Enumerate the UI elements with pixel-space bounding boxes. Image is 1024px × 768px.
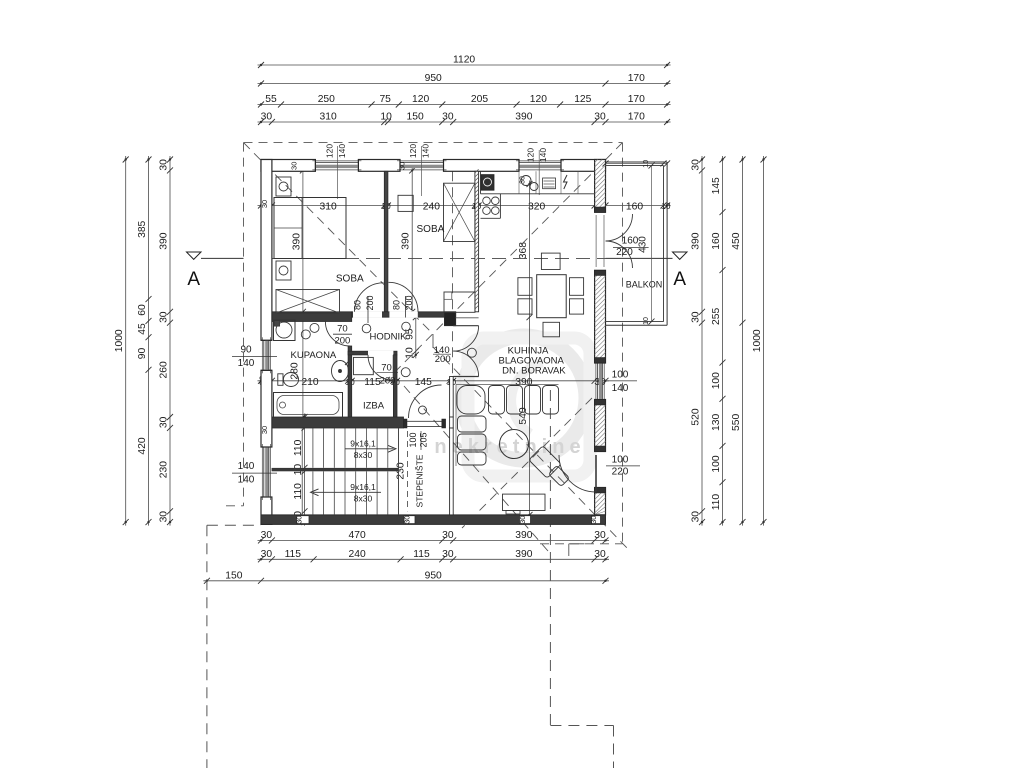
svg-text:90: 90 — [240, 345, 252, 356]
chair right 1 — [570, 278, 584, 296]
svg-text:115: 115 — [413, 549, 430, 560]
label KUHINJA — [508, 346, 549, 357]
svg-text:140: 140 — [538, 148, 548, 162]
svg-text:75: 75 — [379, 94, 391, 105]
svg-text:950: 950 — [425, 570, 442, 581]
svg-text:310: 310 — [320, 201, 337, 212]
svg-text:30: 30 — [691, 311, 702, 323]
svg-text:390: 390 — [515, 549, 532, 560]
dim row 1120 — [258, 55, 671, 69]
svg-text:1120: 1120 — [453, 55, 475, 66]
section marker A right — [673, 252, 688, 290]
svg-text:30: 30 — [589, 516, 598, 524]
svg-text:145: 145 — [711, 177, 722, 194]
label BALKON — [626, 280, 663, 290]
svg-text:SOBA: SOBA — [417, 224, 445, 235]
dim 30-110-10-110-30 stairs — [293, 414, 308, 526]
wall izba top — [348, 351, 397, 356]
wall top segment 2 — [358, 160, 400, 172]
dim row 150-950 — [203, 570, 609, 584]
dim 230 stairs — [396, 431, 408, 511]
svg-text:230: 230 — [159, 461, 170, 478]
svg-text:160: 160 — [626, 201, 643, 212]
svg-text:70: 70 — [381, 363, 392, 374]
svg-text:30: 30 — [260, 426, 269, 434]
kitchen counter top — [481, 171, 595, 194]
wall top segment 4 — [561, 160, 606, 172]
armchair — [529, 446, 570, 487]
partition soba1-soba2 — [384, 171, 388, 311]
svg-text:9x16,1: 9x16,1 — [350, 482, 376, 492]
label 120/140 window W3 — [526, 148, 549, 162]
svg-text:140: 140 — [238, 475, 255, 486]
svg-text:240: 240 — [423, 201, 440, 212]
section trace vertical x452 — [452, 171, 454, 515]
roof diagonal TL — [244, 143, 434, 334]
roof diagonal aux1 — [404, 386, 548, 551]
roof outline bottom — [540, 543, 623, 545]
svg-text:240: 240 — [349, 549, 366, 560]
roof outline right — [622, 143, 624, 544]
svg-text:HODNIK: HODNIK — [370, 332, 408, 343]
dim 160-10 balcony top — [603, 160, 671, 166]
svg-text:30: 30 — [159, 311, 170, 323]
svg-text:390: 390 — [515, 530, 532, 541]
wall top segment 3 — [444, 160, 520, 172]
wall right segment 2 — [595, 270, 606, 363]
label 70/200 door kupaona — [333, 324, 352, 347]
svg-text:420: 420 — [137, 437, 148, 454]
dim chain 450-550 — [731, 156, 746, 526]
bathtub — [274, 393, 343, 418]
wall left segment 2 — [261, 370, 272, 447]
svg-text:120: 120 — [408, 144, 418, 158]
svg-text:30: 30 — [159, 416, 170, 428]
label 140/200 door living — [433, 345, 451, 365]
leader window W3 — [538, 150, 540, 195]
sofa corner — [456, 385, 559, 467]
bed soba1 — [274, 198, 346, 259]
pillar hodnik-kitchen — [444, 312, 455, 326]
dim chain 30-390-30-260-30-230-30 — [159, 156, 174, 526]
dim row interior 30-310-10-240-10-320-30-160-10 — [258, 201, 671, 212]
svg-text:120: 120 — [412, 94, 429, 105]
label 30 bottom wall c — [518, 516, 527, 524]
window W6 living — [595, 360, 606, 403]
label 140/140 stairs window — [232, 461, 277, 486]
label 30 bottom wall d — [589, 516, 598, 524]
door soba2 — [389, 282, 419, 312]
svg-text:30: 30 — [260, 200, 269, 208]
label stairs flight1 — [345, 439, 376, 460]
chair left 2 — [518, 299, 532, 314]
svg-text:255: 255 — [711, 308, 722, 325]
svg-text:1000: 1000 — [752, 329, 763, 352]
kitchen fridge lightning — [564, 175, 568, 189]
svg-text:SOBA: SOBA — [336, 274, 364, 285]
svg-text:80: 80 — [353, 300, 363, 310]
label 10 balcony top — [643, 160, 650, 168]
kitchen stove — [483, 197, 499, 214]
svg-text:140: 140 — [612, 383, 629, 394]
svg-text:140: 140 — [337, 144, 347, 158]
svg-text:310: 310 — [320, 112, 337, 123]
svg-text:120: 120 — [325, 144, 335, 158]
svg-text:30: 30 — [442, 112, 454, 123]
svg-text:30: 30 — [261, 530, 273, 541]
window W5 stairs — [261, 444, 272, 500]
label BLAGOVAONA — [499, 356, 565, 367]
label 30 top wall b — [398, 162, 407, 170]
svg-text:9x16,1: 9x16,1 — [350, 439, 376, 449]
svg-text:KUPAONA: KUPAONA — [291, 350, 337, 361]
corner block stairs door — [450, 417, 454, 428]
label stairs flight2 — [350, 482, 376, 504]
svg-text:BALKON: BALKON — [626, 280, 663, 290]
svg-text:30: 30 — [442, 549, 454, 560]
svg-text:30: 30 — [691, 159, 702, 171]
label 30 window W3 jamb — [520, 176, 527, 184]
washbasin — [332, 361, 350, 382]
stair hall rail — [450, 428, 454, 515]
dim 95-10 hodnik — [404, 314, 419, 359]
label HODNIK — [370, 332, 408, 343]
svg-text:200: 200 — [435, 354, 451, 365]
svg-text:110: 110 — [711, 494, 722, 511]
svg-text:470: 470 — [349, 530, 366, 541]
label SOBA 2 — [417, 224, 445, 235]
door terrace — [559, 455, 596, 492]
svg-text:280: 280 — [290, 362, 301, 379]
svg-text:140: 140 — [421, 144, 431, 158]
nightstand soba1 top — [276, 177, 291, 196]
svg-text:80: 80 — [392, 300, 402, 310]
nightstand soba1 bottom — [276, 261, 291, 280]
chair left 1 — [518, 278, 532, 296]
svg-text:200: 200 — [365, 295, 375, 310]
svg-text:IZBA: IZBA — [363, 401, 385, 412]
window W1 soba1 — [312, 160, 361, 172]
property line left vertical — [206, 525, 208, 768]
section line A-A — [201, 257, 673, 259]
svg-text:160: 160 — [622, 236, 639, 247]
svg-text:220: 220 — [612, 467, 629, 478]
svg-text:10: 10 — [380, 112, 392, 123]
jamb block right wall 6 — [595, 488, 606, 494]
svg-text:115: 115 — [285, 549, 302, 560]
roof flag mark — [569, 544, 585, 556]
svg-text:390: 390 — [691, 232, 702, 249]
svg-text:385: 385 — [137, 220, 148, 237]
dim 390 soba2 — [401, 167, 416, 315]
door balcony double — [596, 214, 632, 268]
door knob circles hodnik — [301, 323, 426, 414]
svg-text:30: 30 — [159, 511, 170, 523]
section marker A left — [187, 252, 202, 290]
svg-text:390: 390 — [515, 377, 532, 388]
dim row 30-310-10-150-30-390-30-170 — [258, 112, 671, 126]
svg-text:390: 390 — [291, 233, 302, 250]
wall kupaona right — [348, 346, 352, 417]
roof diagonal aux2 — [462, 398, 592, 528]
wardrobe soba1 — [276, 290, 340, 314]
svg-text:170: 170 — [628, 112, 645, 123]
kitchen sink bowls — [521, 176, 538, 191]
svg-text:90: 90 — [137, 348, 148, 360]
svg-text:150: 150 — [225, 570, 242, 581]
svg-text:125: 125 — [574, 94, 591, 105]
chair right 2 — [570, 299, 584, 314]
label 160/220 balcony door — [613, 236, 649, 259]
label DN. BORAVAK — [502, 365, 566, 376]
wall top segment 1 — [261, 160, 315, 172]
svg-text:390: 390 — [159, 232, 170, 249]
label 100/205 door stairs — [408, 431, 429, 450]
svg-text:A: A — [673, 269, 686, 290]
svg-text:100: 100 — [612, 455, 629, 466]
window W2 soba2 — [397, 160, 447, 172]
svg-text:30: 30 — [403, 516, 412, 524]
svg-text:30: 30 — [261, 112, 273, 123]
svg-text:A: A — [187, 269, 200, 290]
wall band bedrooms-south left — [272, 312, 352, 322]
dim row 950/170 top — [258, 73, 671, 87]
jamb block right wall 2 — [595, 270, 606, 275]
jamb block right wall 4 — [595, 400, 606, 406]
utility dashed vertical x613 — [613, 726, 615, 768]
label 100/140 living window — [606, 370, 638, 395]
svg-text:10: 10 — [661, 201, 671, 211]
toilet — [278, 373, 299, 387]
svg-text:205: 205 — [471, 94, 488, 105]
roof outline left — [243, 143, 245, 506]
stairs landing line — [398, 428, 400, 515]
svg-text:100: 100 — [711, 455, 722, 472]
balcony railing — [606, 162, 668, 325]
stairs risers — [302, 428, 398, 515]
kitchen dishwasher — [543, 178, 556, 189]
dim 390 soba1 / 280 kupaona — [290, 167, 306, 420]
door stairs — [404, 385, 446, 428]
floor line open pass — [456, 317, 479, 319]
partition soba2-kitchen — [475, 169, 479, 311]
stairs divider — [272, 468, 399, 471]
wall right segment 1 — [595, 160, 606, 213]
label IZBA — [363, 401, 385, 412]
svg-text:30: 30 — [594, 530, 606, 541]
svg-text:8x30: 8x30 — [354, 450, 373, 460]
label 430 balcony — [638, 163, 655, 325]
svg-text:STEPENIŠTE: STEPENIŠTE — [415, 454, 425, 507]
leader window W1 — [337, 146, 339, 199]
roof outline top — [244, 142, 623, 144]
dim chain 1000 right — [752, 156, 767, 526]
svg-text:60: 60 — [137, 304, 148, 316]
jamb block right wall 5 — [595, 446, 606, 452]
wall stairs north — [272, 417, 404, 428]
wall band bedrooms-south right — [352, 311, 456, 318]
window W3 kitchen — [516, 160, 564, 172]
kitchen counter left — [481, 194, 501, 219]
dim chain 145-160-255-100-130-100-110 — [711, 156, 726, 526]
roof diagonal TR — [385, 143, 623, 382]
svg-text:390: 390 — [515, 112, 532, 123]
svg-text:520: 520 — [691, 408, 702, 425]
stairs arrow down — [311, 489, 382, 496]
svg-text:950: 950 — [425, 73, 442, 84]
svg-text:30: 30 — [442, 530, 454, 541]
svg-text:30: 30 — [594, 549, 606, 560]
label 120/140 window W2 — [408, 144, 431, 158]
dim row interior 30-210-10-115-10-145-10-390-30 — [258, 375, 610, 387]
svg-text:200: 200 — [334, 336, 350, 347]
tv bench — [503, 494, 546, 514]
dim chain 385-60-45-90-420 — [137, 156, 152, 526]
wall bottom — [261, 515, 606, 525]
svg-text:10: 10 — [643, 317, 650, 325]
wall izba right — [393, 355, 397, 417]
label KUPAONA — [291, 350, 337, 361]
svg-text:540: 540 — [518, 407, 529, 424]
svg-text:100: 100 — [612, 370, 629, 381]
dim 368/540 kitchen-living — [518, 181, 533, 519]
desk soba2 — [444, 292, 475, 312]
svg-text:55: 55 — [265, 94, 277, 105]
dim row 30-115-240-115-30-390-30 — [258, 549, 610, 563]
svg-text:30: 30 — [518, 516, 527, 524]
svg-text:130: 130 — [711, 414, 722, 431]
svg-text:250: 250 — [318, 94, 335, 105]
door knob circle living — [467, 348, 476, 357]
property line left horizontal — [207, 524, 261, 526]
wall right segment 4 — [595, 488, 606, 515]
svg-text:260: 260 — [159, 361, 170, 378]
wall left segment 1 — [261, 160, 272, 341]
dining table — [537, 275, 567, 318]
door soba1 — [355, 283, 384, 312]
svg-text:145: 145 — [415, 377, 432, 388]
dim chain 1000 left — [114, 156, 129, 526]
wall left segment 3 — [261, 497, 272, 524]
dim row 55-250-75-120-205-120-125-170 — [258, 94, 671, 108]
svg-text:30: 30 — [159, 159, 170, 171]
svg-text:10: 10 — [643, 160, 650, 168]
door kupaona — [325, 322, 350, 347]
svg-text:30: 30 — [398, 162, 407, 170]
dim chain 30-390-30-520-30 — [691, 156, 706, 526]
wall right segment 3 — [595, 400, 606, 452]
closet soba2 — [444, 183, 475, 241]
svg-text:30: 30 — [295, 516, 304, 524]
label 120/140 window W1 — [325, 144, 348, 158]
label STEPENISTE — [415, 454, 425, 507]
svg-text:30: 30 — [290, 162, 299, 170]
label 80/200 door soba2 — [392, 295, 415, 330]
svg-text:30: 30 — [261, 549, 273, 560]
svg-text:1000: 1000 — [114, 329, 125, 352]
chair bottom — [543, 322, 560, 337]
utility dashed vertical x550 — [549, 390, 551, 726]
label 30 bottom wall b — [403, 516, 412, 524]
coffee table round — [500, 430, 529, 459]
label 30 left wall a — [260, 200, 269, 208]
svg-text:320: 320 — [528, 201, 545, 212]
svg-text:368: 368 — [518, 242, 529, 259]
label 70/200 door izba — [377, 363, 399, 387]
svg-text:170: 170 — [628, 73, 645, 84]
washing machine — [274, 320, 296, 341]
svg-text:205: 205 — [419, 432, 429, 447]
svg-text:150: 150 — [407, 112, 424, 123]
partition corridor lower — [450, 377, 454, 418]
dim row 30-470-30-390-30 — [258, 530, 610, 544]
svg-text:140: 140 — [238, 358, 255, 369]
izba cabinet — [354, 357, 374, 374]
label 30 top wall a — [290, 162, 299, 170]
svg-text:160: 160 — [711, 232, 722, 249]
svg-text:DN. BORAVAK: DN. BORAVAK — [502, 365, 566, 376]
door izba — [368, 355, 393, 380]
roof outline left jog — [226, 505, 244, 507]
leader window W2 — [421, 146, 423, 196]
door living double — [453, 326, 478, 377]
label 80/200 door soba1 — [353, 295, 376, 332]
stairs arrow up — [345, 445, 396, 452]
svg-text:210: 210 — [301, 377, 318, 388]
label 30 bottom wall a — [295, 516, 304, 524]
label 100/220 terrace door — [606, 455, 640, 478]
svg-text:170: 170 — [628, 94, 645, 105]
utility dashed jog — [550, 725, 613, 727]
svg-text:200: 200 — [380, 376, 396, 387]
jamb block right wall 1 — [595, 207, 606, 212]
roof ridge stem — [432, 334, 434, 348]
svg-text:30: 30 — [691, 511, 702, 523]
svg-text:120: 120 — [526, 148, 536, 162]
svg-text:390: 390 — [401, 232, 412, 249]
svg-text:100: 100 — [711, 372, 722, 389]
svg-text:550: 550 — [731, 414, 742, 431]
svg-text:30: 30 — [594, 112, 606, 123]
label 10 balcony bottom — [643, 317, 650, 325]
roof diagonal BR — [433, 347, 627, 548]
svg-text:8x30: 8x30 — [354, 494, 373, 504]
svg-text:430: 430 — [638, 236, 649, 253]
svg-text:450: 450 — [731, 232, 742, 249]
svg-text:45: 45 — [137, 323, 148, 335]
wardrobe soba2 small — [398, 195, 413, 211]
svg-text:70: 70 — [337, 324, 348, 335]
kitchen sink unit — [481, 175, 494, 191]
svg-text:30: 30 — [520, 176, 527, 184]
svg-text:120: 120 — [530, 94, 547, 105]
label 30 left wall b — [260, 426, 269, 434]
svg-text:140: 140 — [238, 461, 255, 472]
svg-text:100: 100 — [408, 432, 418, 447]
watermark logo — [434, 336, 590, 476]
chair top — [541, 253, 560, 269]
jamb block right wall 3 — [595, 358, 606, 364]
window W4 kupaona — [261, 337, 272, 373]
label 90/140 kupaona window — [232, 345, 277, 370]
label SOBA 1 — [336, 274, 364, 285]
svg-text:115: 115 — [364, 377, 381, 388]
